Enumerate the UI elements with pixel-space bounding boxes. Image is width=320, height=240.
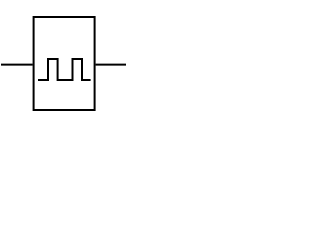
wire (right lead): [96, 64, 126, 66]
wire (left lead): [1, 64, 33, 66]
square-wave symbol (two pulses): [38, 59, 91, 80]
pulse generator U1 (box outline): [34, 17, 95, 110]
